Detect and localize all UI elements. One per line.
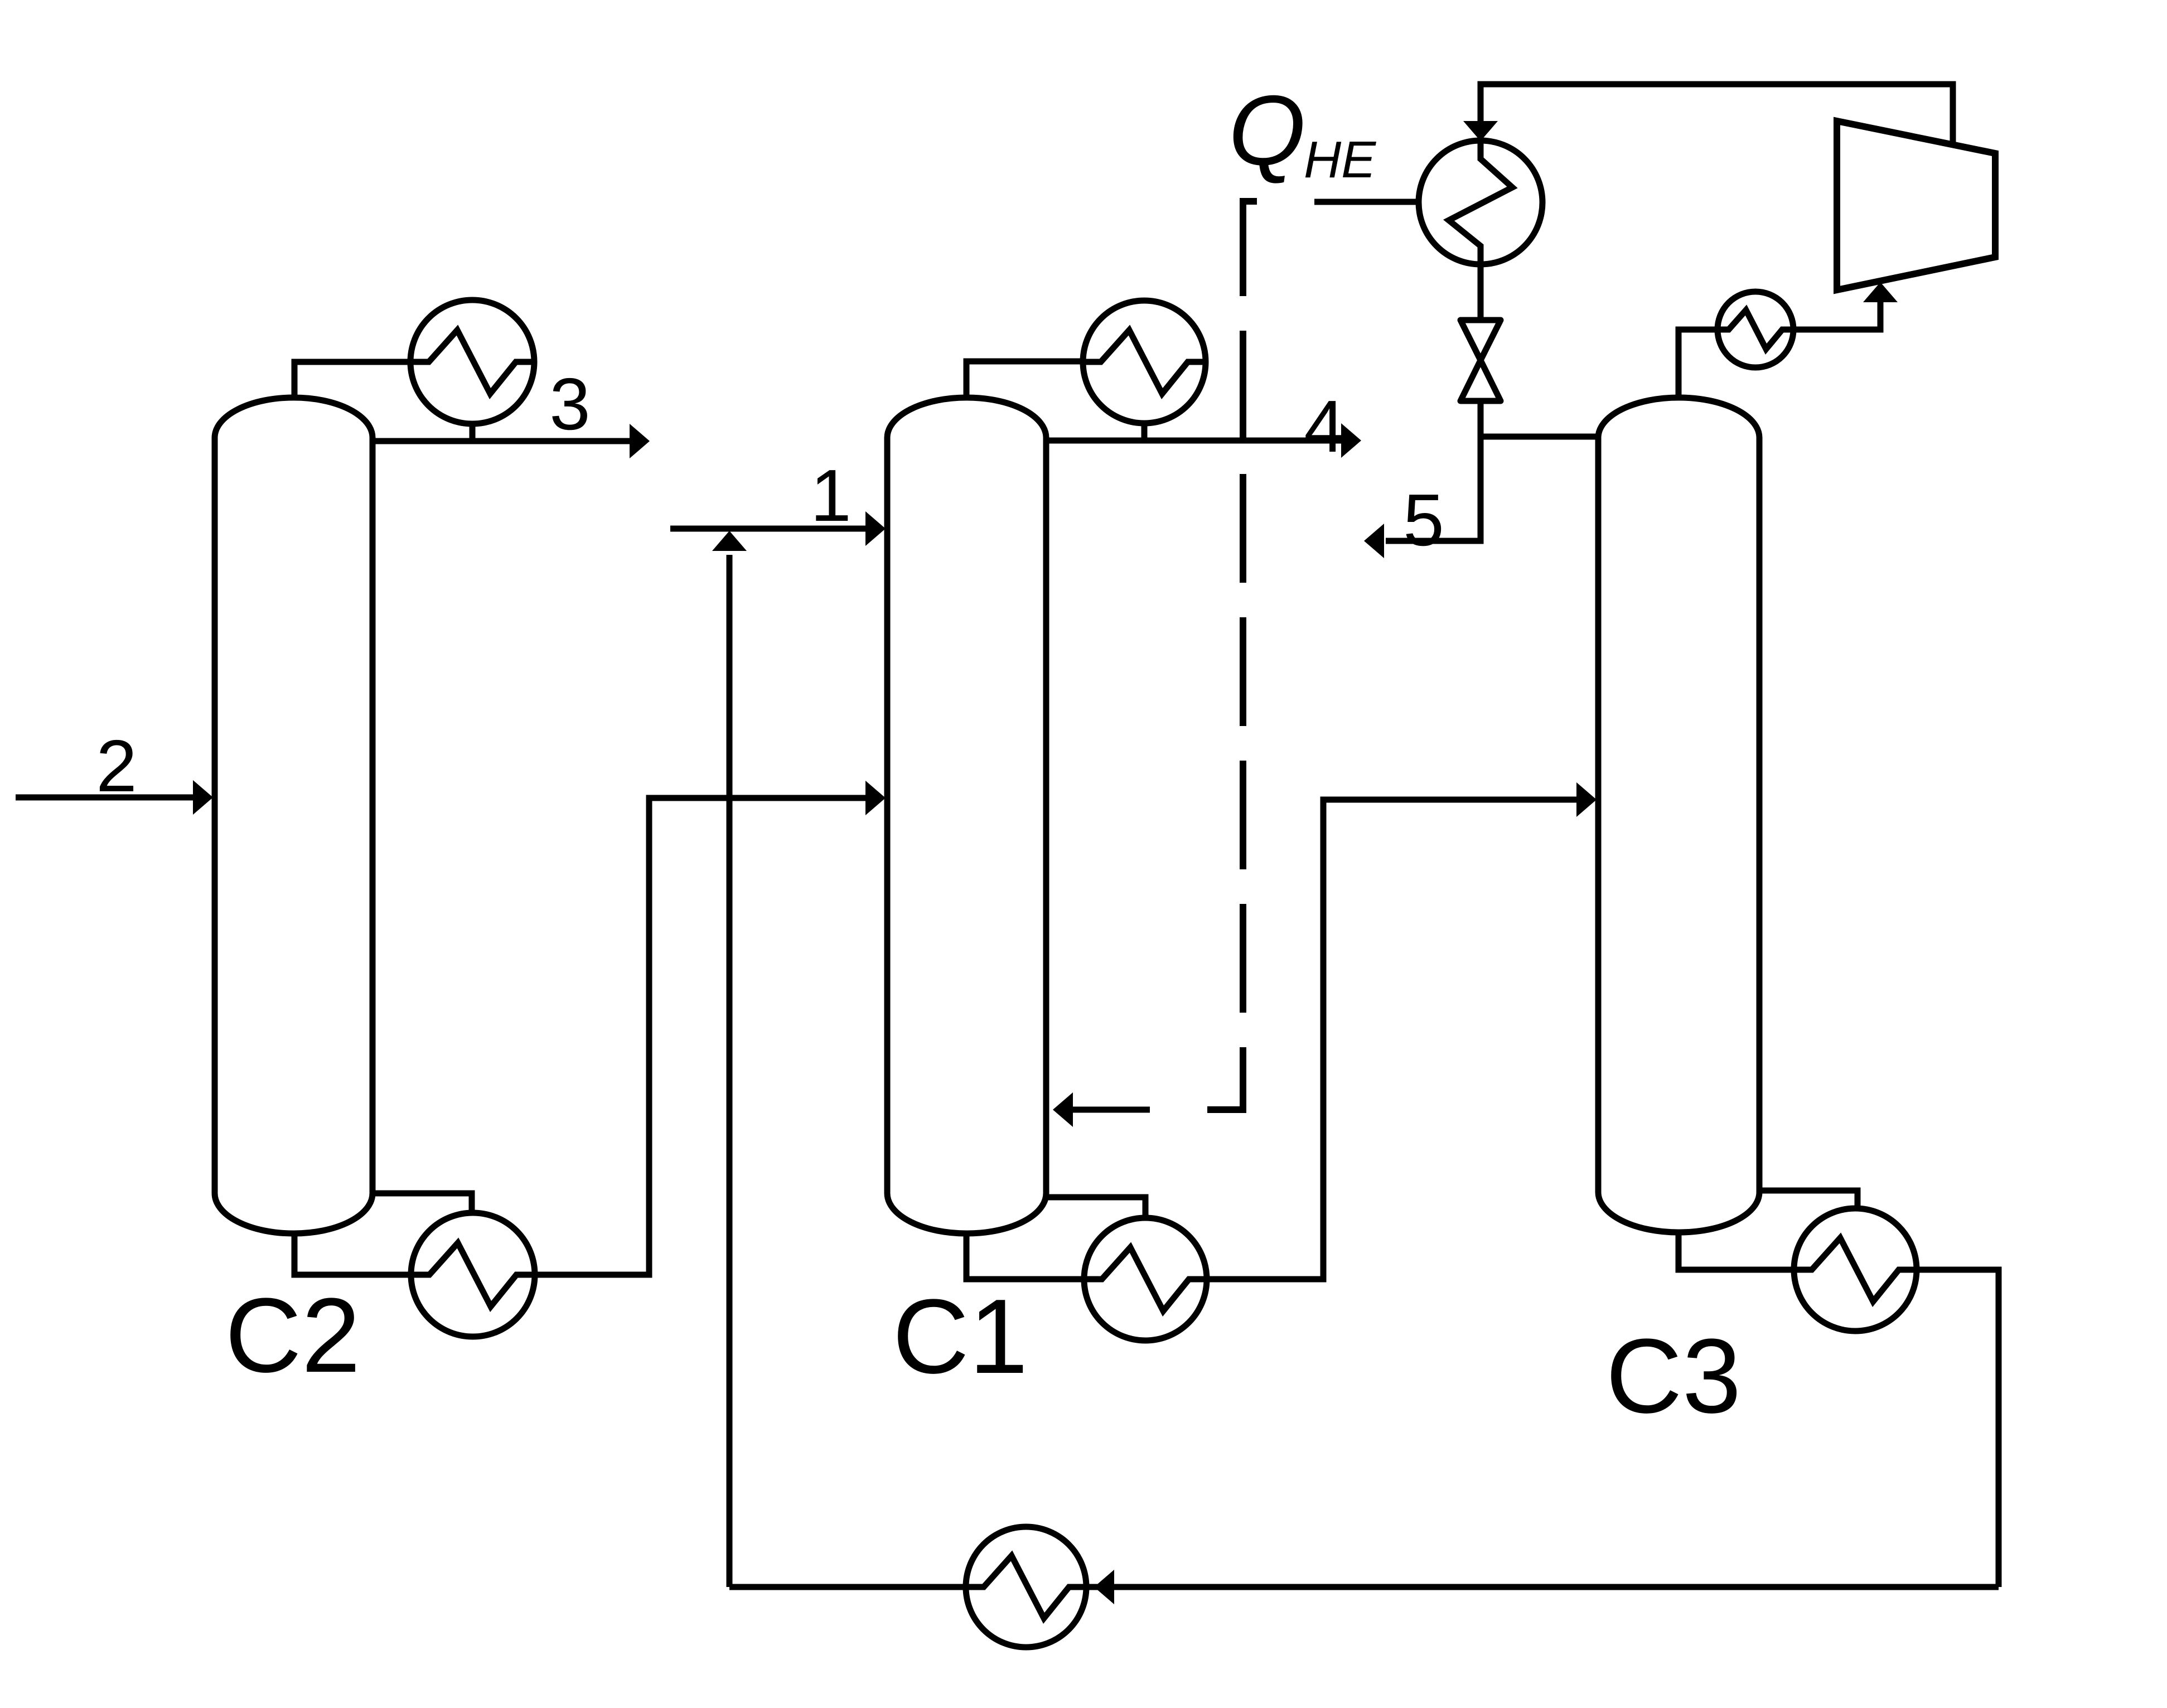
wire stream 1 feed into C1 (670, 526, 868, 532)
arrow up into compressor (1863, 282, 1898, 302)
wire C3 reboiler vapor return (1759, 1191, 1858, 1270)
recycle cooler heat exchanger on bottom line (966, 1527, 1086, 1647)
svg-text:C1: C1 (893, 1278, 1028, 1396)
reboiler heat exchanger on C2 (411, 1213, 535, 1337)
dashed thermal-coupling partition line (1207, 201, 1257, 1110)
wire C3 overhead riser (1679, 330, 1755, 399)
wire C1 condenser stub down to stream 4 line (1141, 362, 1148, 441)
condenser heat exchanger on C1 (1083, 301, 1206, 423)
reboiler heat exchanger on C1 (1084, 1218, 1207, 1341)
wire QHE duty line (1314, 199, 1481, 205)
wire C3 reboiler outlet down to bottom line (1855, 1270, 1999, 1587)
wire stream 3 product line (373, 438, 633, 444)
arrow C1 bottoms feed into C3 (1576, 782, 1597, 817)
column C1 (887, 398, 1046, 1233)
svg-text:HE: HE (1304, 130, 1376, 188)
wire C1 reboiler outlet up to C3 feed (1145, 800, 1578, 1279)
arrow recycle up into stream 1 line (712, 531, 747, 551)
wire small HX to compressor inlet (1755, 290, 1880, 330)
wire C2 reboiler outlet up to C1 feed (473, 798, 868, 1275)
svg-text:Q: Q (1228, 75, 1305, 186)
arrow stream 3 product (630, 424, 650, 458)
arrow stream 1 into C1 (865, 511, 886, 546)
svg-text:4: 4 (1304, 385, 1344, 467)
wire valve outlet junction down to stream 5 (1386, 401, 1481, 541)
svg-text:3: 3 (549, 363, 590, 445)
svg-text:5: 5 (1403, 479, 1444, 561)
wire compressor discharge loop to QHE exchanger (1481, 84, 1953, 148)
arrow stream 2 into C2 (193, 780, 213, 815)
expansion valve (1460, 320, 1501, 401)
wire stream 4 product line (1046, 438, 1343, 444)
compressor (1837, 121, 1995, 290)
condenser heat exchanger on C2 (410, 300, 534, 424)
reboiler heat exchanger on C3 (1794, 1208, 1917, 1331)
wire stream 2 feed into C2 (16, 795, 195, 801)
wire C3 bottoms outlet (1679, 1230, 1855, 1270)
wire C2 reboiler vapor return (373, 1193, 472, 1275)
wire C2 condenser stub down to stream 3 line (470, 362, 476, 441)
wire C2 overhead riser (294, 362, 472, 399)
wire vapor return into C1 from dashed wall (1065, 1107, 1150, 1113)
column C3 (1598, 398, 1759, 1232)
wire C1 overhead riser (966, 361, 1144, 399)
svg-text:C3: C3 (1606, 1317, 1742, 1435)
arrow down into QHE exchanger (1463, 121, 1498, 141)
wire C2 bottoms outlet (294, 1231, 473, 1275)
arrow left into recycle cooler (1094, 1570, 1114, 1604)
wire C1 reboiler vapor return (1046, 1197, 1145, 1279)
arrow stream 5 (1364, 524, 1384, 558)
wire bottom recycle line (729, 1584, 1999, 1590)
arrow C2 bottoms feed into C1 (865, 781, 886, 815)
heat exchanger QHE (vertical zigzag) (1419, 141, 1542, 264)
svg-text:1: 1 (810, 454, 851, 536)
wire C1 bottoms outlet (966, 1232, 1145, 1279)
svg-text:C2: C2 (225, 1276, 361, 1395)
svg-text:2: 2 (96, 725, 137, 807)
small heat exchanger before compressor (1718, 292, 1793, 367)
column C2 (215, 398, 373, 1233)
wire recycle riser from bottom line up to stream 1 (727, 555, 733, 1587)
wire QHE exchanger down to valve (1478, 202, 1484, 320)
wire junction to C3 top feed (1481, 434, 1598, 440)
arrow stream 4 product (1341, 423, 1361, 458)
arrow vapor return into C1 (1053, 1092, 1073, 1127)
